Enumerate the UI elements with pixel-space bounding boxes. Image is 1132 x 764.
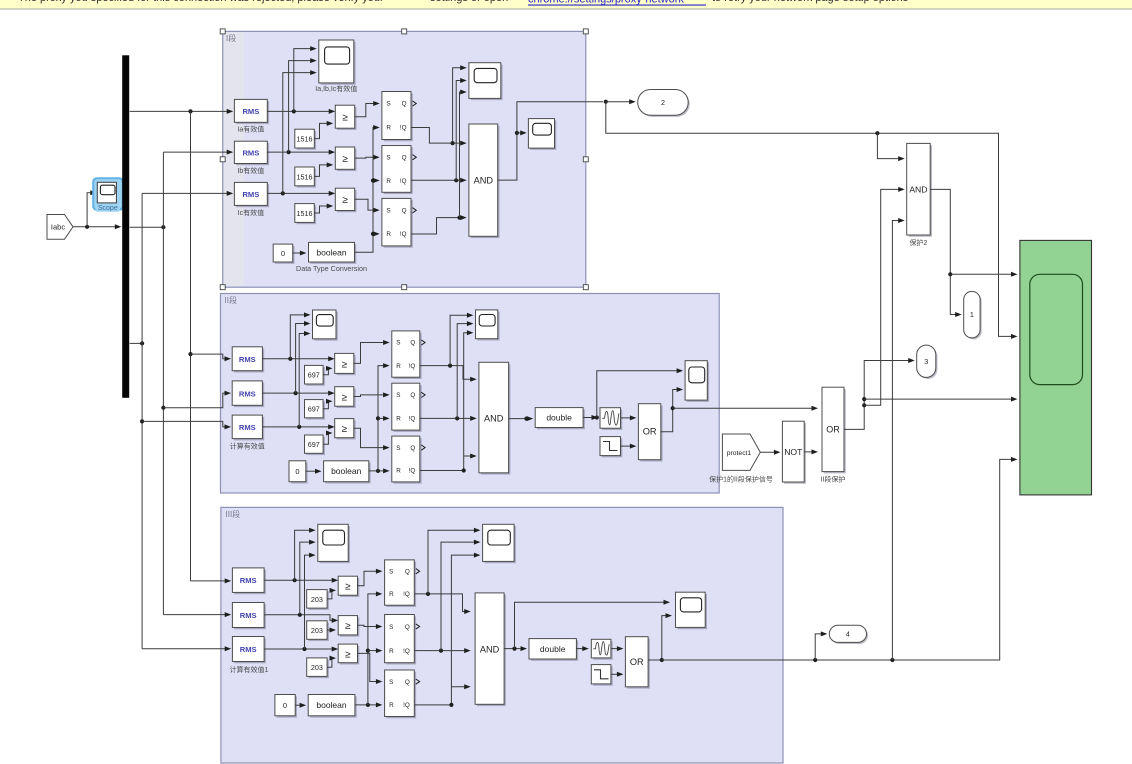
svg-text:RMS: RMS (242, 149, 259, 158)
svg-text:The proxy you specified for th: The proxy you specified for this connect… (18, 0, 384, 4)
scope Ia,Ib,Ic有效值 (319, 40, 356, 85)
wire protect1 to NOT (760, 450, 780, 455)
junction II-3 scope tap (297, 425, 301, 429)
wire III-1 to scope (295, 528, 316, 581)
wire 203a to comparator (327, 588, 336, 599)
svg-text:保护2: 保护2 (909, 238, 927, 247)
svg-text:Q: Q (410, 392, 415, 399)
wire bus output Ia (130, 109, 234, 114)
svg-text:1516: 1516 (297, 135, 313, 144)
wire comparator b to S2 (355, 155, 380, 160)
svg-text:203: 203 (311, 663, 323, 672)
hit crossing block III (591, 639, 612, 659)
wire 1516c to comparator (314, 204, 333, 214)
svg-text:AND: AND (474, 175, 494, 185)
svg-text:!Q: !Q (400, 178, 407, 185)
wire up to AND保护2 in2 (864, 187, 905, 405)
junction region II RMS3 tap (140, 419, 144, 423)
svg-text:计算有效值1: 计算有效值1 (230, 665, 269, 674)
wire RMS III-1 output (264, 578, 338, 583)
label II段保护 (821, 475, 846, 484)
svg-text:R: R (389, 648, 394, 655)
S-R flip-flop FF1a (382, 92, 413, 142)
wire 203b to comparator (327, 628, 336, 633)
FF3b Q dangling output arrow (416, 624, 420, 629)
svg-text:double: double (540, 644, 566, 654)
RMS block Ic有效值 (234, 182, 269, 207)
wire Ic to scope (283, 70, 317, 193)
RMS block Ib有效值 (234, 141, 269, 165)
svg-text:Iabc: Iabc (51, 223, 65, 232)
svg-text:!Q: !Q (403, 702, 410, 709)
wire R3 branch (373, 231, 380, 236)
svg-text:AND: AND (480, 644, 500, 654)
wire II-2 to scope (296, 321, 311, 393)
subsystem region II段 box (221, 294, 720, 494)
NOT gate (782, 421, 806, 484)
svg-text:protect1: protect1 (727, 450, 752, 457)
label 保护1的II段保护信号 (709, 475, 773, 484)
svg-text:OR: OR (826, 424, 840, 434)
junction region II RMS1 tap (188, 352, 192, 356)
data type conversion boolean (region II) (324, 461, 371, 484)
junction port2 (604, 100, 608, 104)
wire RMS Ib output (267, 150, 335, 155)
svg-text:RMS: RMS (239, 423, 256, 432)
RMS block Ia有效值 (234, 99, 269, 124)
wire RMS III-2 output (264, 615, 338, 623)
wire step to OR III (611, 672, 624, 677)
wire III-2 to scope (300, 540, 316, 615)
wire v1 III to scopeB in1 (428, 528, 480, 594)
wire v3 III to AND in3 (451, 684, 470, 689)
svg-text:!Q: !Q (403, 648, 410, 655)
wire FF2c !Q to v3 (420, 330, 474, 470)
svg-text:AND: AND (484, 413, 504, 423)
selected Scope block (92, 177, 124, 212)
wire OR保护 output to port 3 (844, 358, 915, 429)
wire 0 to boolean II (306, 469, 322, 474)
wire step to OR (621, 444, 637, 449)
junction II-1 scope tap (288, 357, 292, 361)
junction Ic feeder (140, 341, 144, 345)
svg-text:Q: Q (405, 624, 410, 631)
svg-text:!Q: !Q (403, 591, 410, 598)
green scope block (1020, 240, 1092, 495)
junction R2 tap (371, 178, 375, 182)
label Ia,Ib,Ic有效值 (315, 84, 357, 93)
label 保护2 (909, 238, 927, 247)
svg-text:203: 203 (311, 626, 323, 635)
junction R2 III tap (366, 649, 370, 653)
wire R2 III branch (368, 648, 383, 653)
subsystem region I段 box (223, 31, 586, 287)
svg-text:R: R (396, 468, 401, 475)
relational operator >= (c) (335, 188, 356, 212)
wire AND保护2 output (930, 189, 962, 317)
output port 4 (829, 625, 868, 644)
svg-text:III段: III段 (226, 509, 241, 519)
wire Ic to region I RMS3 (142, 191, 233, 196)
wire to region III RMS3 (142, 646, 231, 651)
S-R flip-flop FF1b (382, 146, 413, 195)
S-R flip-flop FF2c (392, 436, 422, 484)
svg-text:≥: ≥ (342, 195, 348, 206)
svg-text:3: 3 (924, 357, 928, 366)
FF3a Q dangling output arrow (416, 569, 420, 574)
label 计算有效值1 (230, 665, 269, 674)
svg-text:Ib有效值: Ib有效值 (237, 166, 264, 175)
wire Ib to scope (289, 58, 317, 152)
wire to region III RMS2 (163, 612, 231, 617)
wire 0 to boolean III (295, 703, 306, 708)
wire R2 II branch (378, 416, 390, 421)
wire comparator IIIb to S2 (358, 624, 383, 629)
scope region III middle (483, 524, 516, 563)
svg-text:R: R (389, 702, 394, 709)
svg-text:Q: Q (405, 568, 410, 575)
relational operator >= III-c (338, 644, 359, 664)
wire boolean II to R chain (369, 468, 390, 473)
junction Ib feeder (161, 225, 165, 229)
svg-text:NOT: NOT (784, 447, 803, 457)
wire FF2a !Q to AND (420, 366, 477, 382)
svg-text:Ia有效值: Ia有效值 (237, 125, 264, 134)
output port 2 (638, 90, 690, 117)
wire to port 4 (815, 631, 827, 660)
S-R flip-flop FF2b (392, 383, 422, 432)
svg-text:I段: I段 (226, 33, 236, 43)
svg-text:boolean: boolean (316, 247, 347, 257)
svg-text:RMS: RMS (240, 576, 257, 585)
wire III-3 to scope (305, 553, 316, 649)
wire AND2 output to double (509, 416, 534, 421)
wire branch to Scope (87, 190, 97, 227)
output port 1 (964, 291, 982, 339)
junction boolean II vertical (376, 469, 380, 473)
step block II (600, 437, 622, 458)
hit crossing block II (600, 408, 622, 430)
scope region I upper (469, 63, 503, 100)
junction v3 (457, 216, 461, 220)
wire II-1 to scope (290, 312, 310, 358)
wire RMS II-2 output (262, 391, 334, 396)
AND gate region III (475, 593, 506, 706)
svg-text:S: S (386, 154, 390, 161)
FF2b Q dangling output arrow (421, 392, 425, 397)
svg-text:≥: ≥ (341, 392, 347, 403)
OR gate region III (625, 637, 650, 689)
wire comparator IIIc to S3 (358, 653, 383, 684)
junction v2 (454, 178, 458, 182)
svg-text:!Q: !Q (409, 416, 416, 423)
junction Ia feeder (188, 109, 192, 113)
RMS block III-2 (232, 603, 266, 630)
scope region II middle (476, 310, 500, 341)
wire FF2b !Q to AND (420, 416, 477, 421)
wire hit to OR (621, 415, 637, 420)
junction R2 II tap (376, 416, 380, 420)
junction v2 II (455, 416, 459, 420)
wire v2 to scope2 in2 (456, 78, 467, 180)
FF1a Q dangling output arrow (413, 101, 417, 106)
wire comparator IIc to S3 (354, 428, 390, 450)
wire region III bottom bus (662, 457, 1018, 660)
svg-text:Scope: Scope (98, 205, 118, 212)
AND gate 保护2 (907, 143, 932, 236)
wire AND1 output to scope3 and exit (498, 130, 527, 180)
svg-text:RMS: RMS (239, 355, 256, 364)
svg-text:AND: AND (909, 184, 927, 194)
svg-text:≥: ≥ (342, 154, 348, 165)
junction OR3 out (660, 658, 664, 662)
bus bar (mux) (122, 55, 129, 398)
constant 203 (a) (307, 590, 329, 610)
wire OR2 output (661, 387, 683, 432)
scope region III right (676, 592, 708, 629)
relational operator >= III-a (338, 576, 359, 597)
junction port4 tap (813, 658, 817, 662)
label Ib有效值 (237, 166, 264, 175)
svg-text:!Q: !Q (409, 468, 416, 475)
wire vertical Ia feeder (190, 111, 192, 581)
svg-text:Ia,Ib,Ic有效值: Ia,Ib,Ic有效值 (315, 84, 357, 93)
wire Iabc to bus (73, 224, 121, 229)
svg-text:计算有效值: 计算有效值 (230, 442, 265, 451)
svg-text:S: S (396, 392, 400, 399)
constant 203 (c) (307, 658, 329, 678)
RMS block III-3 (232, 637, 266, 664)
data type conversion boolean (region III) (308, 695, 357, 718)
wire AND3 output to double (504, 646, 527, 651)
browser notification bar (clipped) (0, 0, 1132, 10)
svg-text:1: 1 (970, 310, 974, 319)
wire boolean to R inputs (355, 125, 380, 252)
svg-text:Data Type Conversion: Data Type Conversion (296, 264, 367, 273)
svg-text:0: 0 (281, 249, 285, 258)
svg-text:!Q: !Q (400, 125, 407, 132)
junction on Iabc wire (85, 225, 89, 229)
junction Ia scope tap (292, 109, 296, 113)
wire v1 II to scopeB in1 (450, 313, 473, 366)
svg-text:S: S (389, 568, 393, 575)
output port 3 (917, 345, 938, 379)
junction green in1 tap (948, 272, 952, 276)
wire RMS II-1 output (262, 356, 334, 361)
svg-text:≥: ≥ (345, 582, 351, 593)
input tag protect1 (722, 434, 760, 470)
svg-text:R: R (386, 125, 391, 132)
svg-text:boolean: boolean (331, 466, 362, 476)
junction v1 (451, 141, 455, 145)
svg-text:≥: ≥ (342, 112, 348, 123)
RMS block II-1 (232, 347, 264, 373)
wire to region II RMS1 (191, 354, 232, 361)
svg-text:S: S (386, 208, 390, 215)
FF1b Q dangling output arrow (413, 155, 417, 160)
FF3c Q dangling output arrow (416, 679, 420, 684)
wire RMS Ia output (267, 109, 335, 114)
wire to green scope in1 (950, 272, 1017, 277)
wire bus output 2 (130, 226, 164, 228)
svg-text:S: S (389, 679, 393, 686)
svg-text:double: double (546, 413, 572, 423)
junction v2 III (439, 649, 443, 653)
wire bus output 3 (130, 342, 142, 344)
svg-text:2: 2 (661, 98, 665, 107)
wire v3 II to AND in3 (464, 454, 477, 459)
svg-text:1516: 1516 (297, 209, 313, 218)
wire comparator IIIa to S1 (358, 569, 383, 586)
junction Ic scope tap (281, 191, 285, 195)
wire comparator a to S1 (355, 101, 380, 117)
junction AND in2 tap (862, 403, 866, 407)
svg-text:1516: 1516 (297, 172, 313, 181)
svg-text:697: 697 (308, 371, 320, 380)
junction v3 III (449, 703, 453, 707)
wire into port 2 (606, 99, 636, 104)
OR gate II段保护 (822, 387, 846, 473)
wire boolean II vertical (378, 363, 390, 471)
constant 0 (region III) (275, 695, 297, 718)
region I selection handles (220, 29, 588, 290)
constant 0 (region I) (273, 244, 294, 264)
svg-text:to retry your network page set: to retry your network page setup options (712, 0, 909, 4)
constant 0 (region II) (289, 461, 308, 484)
wire RMS III-3 output (264, 647, 338, 652)
svg-text:4: 4 (846, 629, 850, 638)
relational operator >= II-a (335, 353, 356, 375)
junction hit tap (595, 415, 599, 419)
svg-text:RMS: RMS (239, 389, 256, 398)
junction region II RMS2 tap (161, 406, 165, 410)
svg-text:!Q: !Q (400, 231, 407, 238)
input tag Iabc (47, 215, 73, 240)
svg-text:OR: OR (630, 657, 644, 667)
wire NOT to OR (804, 449, 818, 454)
junction III-2 scope tap (298, 613, 302, 617)
wire v2 III to scopeB in2 (441, 540, 480, 651)
constant 697 (b) (305, 400, 325, 420)
constant 1516 (c) (295, 204, 316, 225)
wire to AND保护2 in1 (877, 133, 904, 161)
svg-text:II段保护: II段保护 (821, 475, 846, 484)
RMS block III-1 (232, 568, 266, 594)
wire AND3 tap to scopeC in1 (515, 600, 671, 649)
junction v1 III (426, 592, 430, 596)
svg-text:R: R (396, 363, 401, 370)
wire double to hit crossing III (576, 646, 588, 651)
wire FF3a !Q to AND (414, 594, 470, 614)
svg-text:S: S (386, 101, 390, 108)
subsystem region III段 box (221, 507, 783, 763)
svg-text:Q: Q (405, 679, 410, 686)
constant 697 (c) (305, 435, 325, 455)
svg-text:697: 697 (308, 440, 320, 449)
S-R flip-flop FF1c (382, 198, 413, 247)
wire to region III RMS1 (191, 578, 232, 583)
junction v3 II (462, 468, 466, 472)
wire FF1b !Q to AND (411, 178, 467, 183)
wire FF3c !Q to v3 (414, 553, 480, 705)
wire to region II RMS2 (163, 391, 231, 408)
junction R3 tap (371, 232, 375, 236)
relational operator >= III-b (338, 616, 359, 637)
svg-text:S: S (389, 624, 393, 631)
junction III-3 scope tap (302, 647, 306, 651)
data type conversion boolean (region I) (309, 242, 357, 263)
svg-text:≥: ≥ (341, 424, 347, 435)
svg-text:RMS: RMS (240, 645, 257, 654)
wire to green scope in3 (864, 397, 1017, 402)
svg-text:R: R (389, 591, 394, 598)
relational operator >= II-b (335, 387, 356, 408)
label 计算有效值 (230, 442, 265, 451)
wire 0 to boolean (293, 251, 307, 256)
svg-text:OR: OR (643, 427, 657, 437)
wire region II protection output (673, 406, 818, 411)
junction AND in3 tap (890, 658, 894, 662)
relational operator >= II-c (335, 419, 356, 440)
RMS block II-3 (232, 415, 264, 440)
wire comparator IIb to S2 (354, 392, 390, 397)
wire up to AND保护2 in3 (892, 218, 904, 660)
svg-text:Ic有效值: Ic有效值 (238, 208, 264, 217)
wire FF1a !Q to AND (411, 128, 467, 146)
junction boolean III vertical (366, 703, 370, 707)
wire 1516a to comparator (314, 121, 333, 139)
constant 203 (b) (307, 621, 329, 641)
wire 697c to comparator (323, 431, 332, 445)
wire 1516b to comparator (314, 162, 333, 176)
wire 203c to comparator (327, 656, 336, 668)
svg-text:R: R (386, 231, 391, 238)
AND gate region I (469, 124, 500, 238)
svg-text:Q: Q (402, 101, 407, 108)
label Ia有效值 (237, 125, 264, 134)
wire OR3 output up to scopeC in2 (648, 613, 672, 660)
svg-text:R: R (386, 178, 391, 185)
wire comparator c to S3 (355, 199, 380, 212)
svg-text:Q: Q (410, 340, 415, 347)
wire Ia to scope (294, 46, 317, 111)
svg-text:S: S (396, 340, 400, 347)
step block III (591, 665, 612, 686)
label Ic有效值 (238, 208, 264, 217)
S-R flip-flop FF3a (385, 560, 417, 607)
svg-text:boolean: boolean (316, 700, 347, 710)
junction Ib scope tap (287, 150, 291, 154)
svg-text:RMS: RMS (242, 107, 259, 116)
RMS block II-2 (232, 381, 264, 407)
FF2a Q dangling output arrow (421, 340, 425, 345)
wire vertical Ic feeder (141, 193, 143, 648)
junction III-1 scope tap (293, 578, 297, 582)
wire boolean III vertical (368, 591, 383, 705)
svg-text:R: R (396, 416, 401, 423)
junction II-2 scope tap (294, 391, 298, 395)
constant 1516 (a) (295, 129, 316, 150)
junction v1 II (448, 364, 452, 368)
junction AND3 out (512, 647, 516, 651)
scope region II left (313, 310, 338, 341)
wire II-3 to scope (299, 331, 310, 427)
wire to region II RMS3 (142, 421, 231, 429)
constant 697 (a) (305, 365, 325, 385)
FF2c Q dangling output arrow (421, 445, 425, 450)
wire 697b to comparator (323, 399, 332, 409)
relational operator >= (a) (335, 105, 356, 130)
